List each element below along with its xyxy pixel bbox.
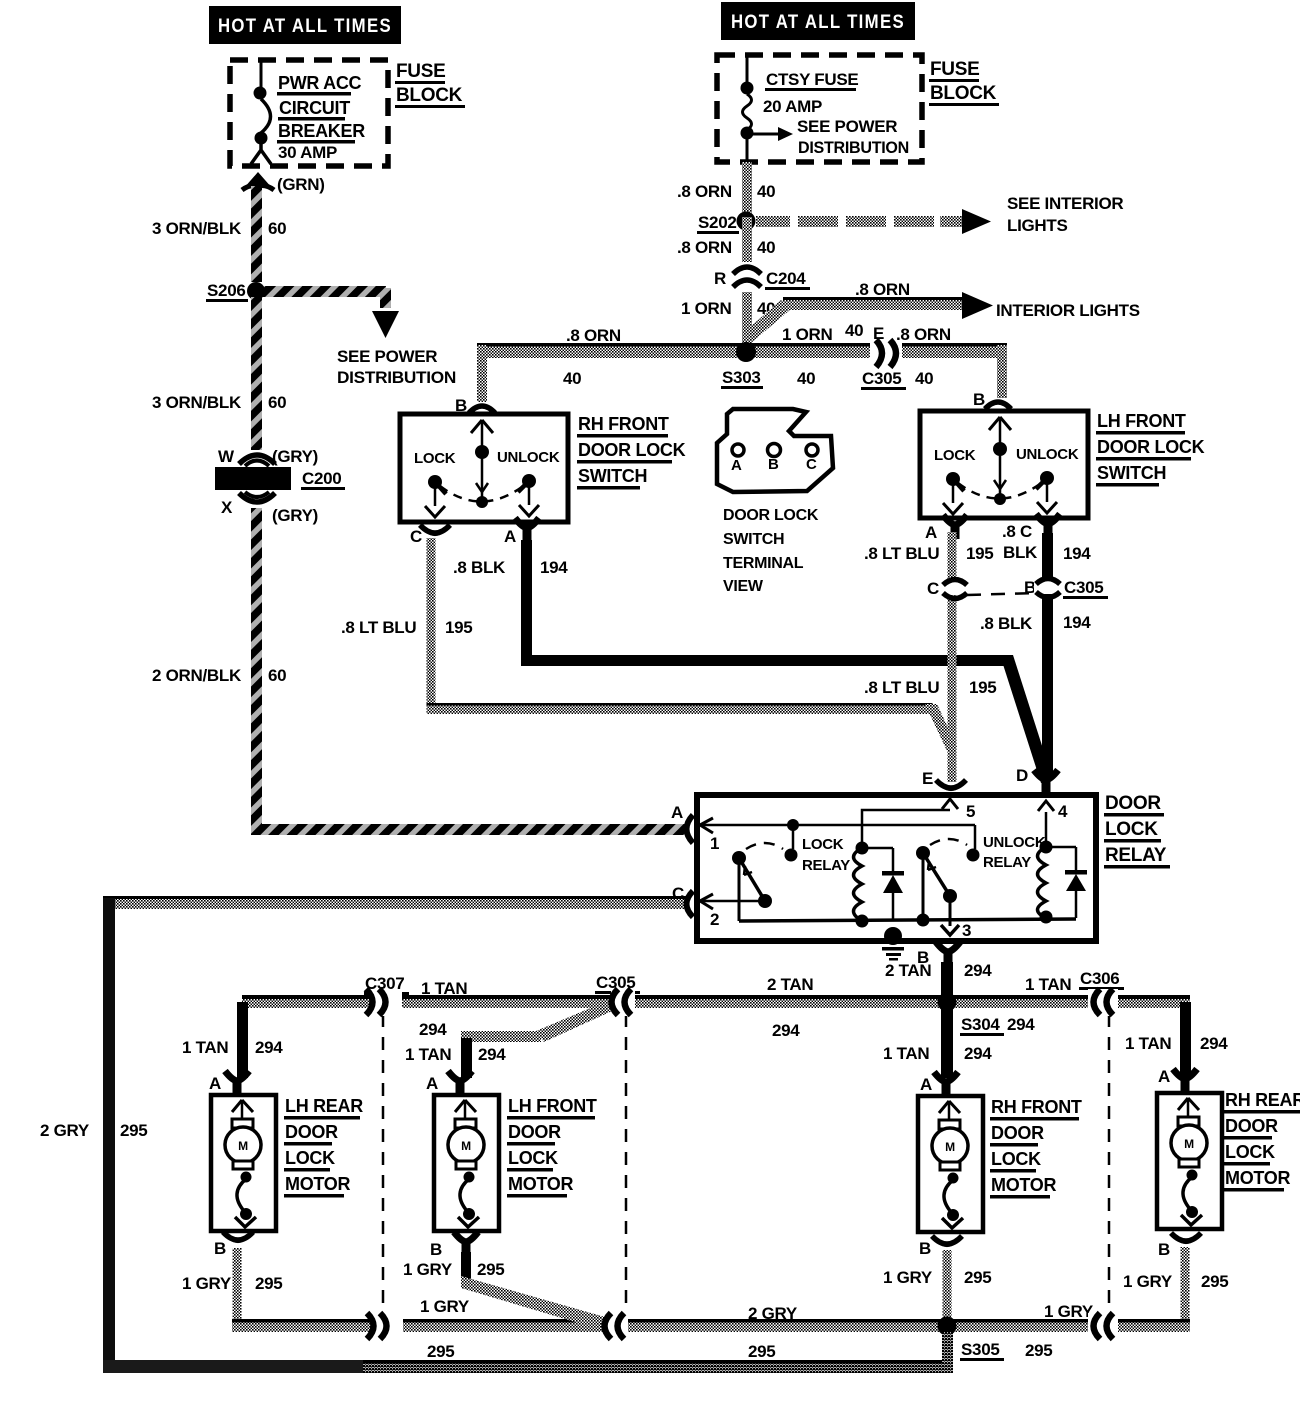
svg-text:DOOR LOCK: DOOR LOCK <box>578 440 686 460</box>
svg-text:.8 ORN: .8 ORN <box>896 325 951 344</box>
svg-text:294: 294 <box>964 1044 992 1063</box>
svg-text:295: 295 <box>1201 1272 1228 1291</box>
svg-text:A: A <box>504 527 516 546</box>
svg-text:B: B <box>430 1240 442 1259</box>
svg-text:S206: S206 <box>207 281 246 300</box>
svg-text:295: 295 <box>748 1342 775 1361</box>
svg-text:C: C <box>806 456 817 473</box>
svg-text:DOOR: DOOR <box>1105 793 1161 814</box>
svg-text:SEE INTERIOR: SEE INTERIOR <box>1007 194 1123 213</box>
svg-text:MOTOR: MOTOR <box>991 1175 1056 1195</box>
svg-text:LOCK: LOCK <box>802 836 844 853</box>
svg-text:FUSE: FUSE <box>930 59 979 80</box>
svg-text:HOT AT ALL TIMES: HOT AT ALL TIMES <box>218 16 392 37</box>
svg-text:X: X <box>221 498 233 517</box>
svg-text:.8 ORN: .8 ORN <box>677 238 732 257</box>
svg-text:UNLOCK: UNLOCK <box>497 449 560 466</box>
svg-text:LIGHTS: LIGHTS <box>1007 216 1068 235</box>
svg-text:A: A <box>731 457 742 474</box>
svg-text:1: 1 <box>710 834 719 853</box>
svg-text:VIEW: VIEW <box>723 578 764 595</box>
svg-text:C: C <box>672 884 684 903</box>
svg-text:295: 295 <box>120 1121 147 1140</box>
svg-text:1 TAN: 1 TAN <box>1125 1034 1171 1053</box>
svg-text:(GRY): (GRY) <box>272 447 318 466</box>
svg-text:2 ORN/BLK: 2 ORN/BLK <box>152 666 242 685</box>
svg-text:1 TAN: 1 TAN <box>182 1038 228 1057</box>
svg-text:A: A <box>209 1074 221 1093</box>
svg-text:LOCK: LOCK <box>1105 819 1158 840</box>
svg-text:5: 5 <box>966 802 975 821</box>
svg-text:SWITCH: SWITCH <box>578 466 647 486</box>
svg-text:1 GRY: 1 GRY <box>1044 1302 1094 1321</box>
svg-text:40: 40 <box>757 238 775 257</box>
svg-text:A: A <box>671 803 683 822</box>
svg-text:LOCK: LOCK <box>991 1149 1041 1169</box>
svg-text:B: B <box>973 390 985 409</box>
svg-text:295: 295 <box>1025 1341 1052 1360</box>
svg-text:C305: C305 <box>1064 578 1103 597</box>
svg-text:TERMINAL: TERMINAL <box>723 555 804 572</box>
svg-text:295: 295 <box>964 1268 991 1287</box>
svg-text:A: A <box>925 523 937 542</box>
svg-text:1 GRY: 1 GRY <box>420 1297 470 1316</box>
svg-text:1 GRY: 1 GRY <box>182 1274 232 1293</box>
svg-text:D: D <box>1016 766 1028 785</box>
svg-text:294: 294 <box>255 1038 283 1057</box>
svg-text:1 GRY: 1 GRY <box>1123 1272 1173 1291</box>
svg-text:294: 294 <box>419 1020 447 1039</box>
svg-text:C306: C306 <box>1080 969 1119 988</box>
svg-text:CTSY FUSE: CTSY FUSE <box>766 70 858 89</box>
svg-text:295: 295 <box>427 1342 454 1361</box>
svg-text:S304: S304 <box>961 1015 1000 1034</box>
svg-text:BLOCK: BLOCK <box>396 85 463 106</box>
svg-text:RELAY: RELAY <box>802 857 850 874</box>
svg-text:C200: C200 <box>302 469 341 488</box>
svg-text:MOTOR: MOTOR <box>508 1174 573 1194</box>
svg-text:294: 294 <box>478 1045 506 1064</box>
svg-text:SEE POWER: SEE POWER <box>337 347 437 366</box>
svg-text:W: W <box>218 447 235 466</box>
svg-text:B: B <box>768 456 779 473</box>
svg-text:MOTOR: MOTOR <box>1225 1168 1290 1188</box>
svg-text:SWITCH: SWITCH <box>723 531 784 548</box>
svg-text:LH REAR: LH REAR <box>285 1096 363 1116</box>
svg-text:PWR ACC: PWR ACC <box>278 73 362 93</box>
svg-text:DOOR: DOOR <box>991 1123 1044 1143</box>
svg-text:40: 40 <box>757 182 775 201</box>
svg-text:DOOR LOCK: DOOR LOCK <box>723 507 819 524</box>
svg-text:E: E <box>922 769 933 788</box>
svg-text:UNLOCK: UNLOCK <box>983 834 1046 851</box>
svg-text:S202: S202 <box>698 213 737 232</box>
svg-text:1 TAN: 1 TAN <box>883 1044 929 1063</box>
svg-text:2 GRY: 2 GRY <box>40 1121 90 1140</box>
svg-text:.8 ORN: .8 ORN <box>566 326 621 345</box>
svg-text:S303: S303 <box>722 368 761 387</box>
svg-text:3: 3 <box>962 921 971 940</box>
svg-text:60: 60 <box>268 666 286 685</box>
svg-text:C204: C204 <box>766 269 806 288</box>
svg-text:1 TAN: 1 TAN <box>421 979 467 998</box>
svg-text:294: 294 <box>1200 1034 1228 1053</box>
svg-text:.8 BLK: .8 BLK <box>453 558 506 577</box>
svg-text:SEE POWER: SEE POWER <box>797 117 897 136</box>
svg-text:C: C <box>410 527 422 546</box>
svg-text:SWITCH: SWITCH <box>1097 463 1166 483</box>
svg-text:60: 60 <box>268 393 286 412</box>
svg-text:A: A <box>920 1075 932 1094</box>
svg-text:LOCK: LOCK <box>285 1148 335 1168</box>
svg-text:2 GRY: 2 GRY <box>748 1304 798 1323</box>
svg-text:INTERIOR LIGHTS: INTERIOR LIGHTS <box>996 301 1140 320</box>
svg-text:LH FRONT: LH FRONT <box>1097 411 1186 431</box>
svg-text:2 TAN: 2 TAN <box>767 975 813 994</box>
svg-text:3 ORN/BLK: 3 ORN/BLK <box>152 393 242 412</box>
svg-text:RELAY: RELAY <box>1105 845 1167 866</box>
svg-text:BREAKER: BREAKER <box>278 121 365 141</box>
svg-text:195: 195 <box>966 544 993 563</box>
svg-text:DOOR: DOOR <box>508 1122 561 1142</box>
svg-text:.8 ORN: .8 ORN <box>677 182 732 201</box>
svg-text:FUSE: FUSE <box>396 61 445 82</box>
svg-text:HOT AT ALL TIMES: HOT AT ALL TIMES <box>731 12 905 33</box>
svg-text:S305: S305 <box>961 1340 1000 1359</box>
svg-text:1 TAN: 1 TAN <box>1025 975 1071 994</box>
svg-text:1 GRY: 1 GRY <box>883 1268 933 1287</box>
svg-text:195: 195 <box>969 678 996 697</box>
svg-text:LH FRONT: LH FRONT <box>508 1096 597 1116</box>
svg-text:(GRY): (GRY) <box>272 506 318 525</box>
svg-text:60: 60 <box>268 219 286 238</box>
svg-text:C: C <box>927 579 939 598</box>
svg-text:B: B <box>214 1239 226 1258</box>
svg-text:.8 BLK: .8 BLK <box>980 614 1033 633</box>
svg-text:195: 195 <box>445 618 472 637</box>
svg-text:1 GRY: 1 GRY <box>403 1260 453 1279</box>
svg-text:.8 LT BLU: .8 LT BLU <box>864 678 939 697</box>
svg-text:20 AMP: 20 AMP <box>763 97 822 116</box>
svg-text:.8 LT BLU: .8 LT BLU <box>341 618 416 637</box>
svg-text:1 ORN: 1 ORN <box>782 325 832 344</box>
svg-text:RELAY: RELAY <box>983 854 1031 871</box>
svg-text:40: 40 <box>797 369 815 388</box>
svg-text:BLOCK: BLOCK <box>930 83 997 104</box>
svg-text:40: 40 <box>845 321 863 340</box>
svg-text:MOTOR: MOTOR <box>285 1174 350 1194</box>
svg-text:B: B <box>1158 1240 1170 1259</box>
svg-text:.8 LT BLU: .8 LT BLU <box>864 544 939 563</box>
svg-text:4: 4 <box>1058 802 1068 821</box>
svg-text:30 AMP: 30 AMP <box>278 143 337 162</box>
svg-text:3 ORN/BLK: 3 ORN/BLK <box>152 219 242 238</box>
svg-text:40: 40 <box>563 369 581 388</box>
svg-text:LOCK: LOCK <box>414 450 456 467</box>
svg-text:C305: C305 <box>862 369 901 388</box>
svg-text:A: A <box>426 1074 438 1093</box>
svg-text:295: 295 <box>255 1274 282 1293</box>
svg-text:DISTRIBUTION: DISTRIBUTION <box>337 368 456 387</box>
svg-text:DOOR: DOOR <box>1225 1116 1278 1136</box>
svg-text:294: 294 <box>772 1021 800 1040</box>
svg-text:1 TAN: 1 TAN <box>405 1045 451 1064</box>
svg-text:RH FRONT: RH FRONT <box>991 1097 1082 1117</box>
svg-text:.8 ORN: .8 ORN <box>855 280 910 299</box>
svg-text:294: 294 <box>964 961 992 980</box>
svg-text:2 TAN: 2 TAN <box>885 961 931 980</box>
svg-text:2: 2 <box>710 910 719 929</box>
svg-text:194: 194 <box>1063 613 1091 632</box>
svg-text:CIRCUIT: CIRCUIT <box>279 98 350 118</box>
svg-text:RH REAR: RH REAR <box>1225 1090 1300 1110</box>
svg-text:UNLOCK: UNLOCK <box>1016 446 1079 463</box>
svg-text:194: 194 <box>540 558 568 577</box>
svg-text:DOOR: DOOR <box>285 1122 338 1142</box>
svg-text:.8 C: .8 C <box>1002 522 1032 541</box>
svg-text:R: R <box>714 269 726 288</box>
svg-text:294: 294 <box>1007 1015 1035 1034</box>
svg-text:DISTRIBUTION: DISTRIBUTION <box>798 138 909 157</box>
svg-text:LOCK: LOCK <box>508 1148 558 1168</box>
svg-text:40: 40 <box>915 369 933 388</box>
svg-text:DOOR LOCK: DOOR LOCK <box>1097 437 1205 457</box>
svg-text:BLK: BLK <box>1003 543 1038 562</box>
svg-text:B: B <box>919 1239 931 1258</box>
svg-text:LOCK: LOCK <box>1225 1142 1275 1162</box>
svg-text:194: 194 <box>1063 544 1091 563</box>
svg-text:RH FRONT: RH FRONT <box>578 414 669 434</box>
svg-text:295: 295 <box>477 1260 504 1279</box>
svg-text:(GRN): (GRN) <box>277 175 325 194</box>
svg-text:A: A <box>1158 1067 1170 1086</box>
svg-text:1 ORN: 1 ORN <box>681 299 731 318</box>
svg-text:LOCK: LOCK <box>934 447 976 464</box>
